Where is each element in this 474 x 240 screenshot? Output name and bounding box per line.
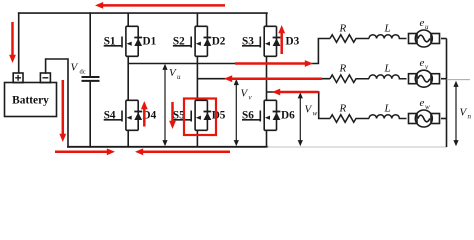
voltage arrow Vv xyxy=(234,79,253,146)
diode D5 with label xyxy=(204,110,226,122)
svg-text:Battery: Battery xyxy=(12,95,49,107)
wire phase c output xyxy=(267,92,331,119)
leg B vertical segments (x=197.4) xyxy=(196,13,198,147)
wire bottom rail xyxy=(68,146,267,148)
switch S6 with label xyxy=(242,100,277,130)
svg-text:n: n xyxy=(468,113,472,121)
diode D6 with label xyxy=(273,110,295,122)
resistor R phase c xyxy=(330,103,369,123)
leg A vertical segments (x=128.2) xyxy=(127,13,129,147)
red current arrow: up through D3 xyxy=(278,25,285,54)
svg-text:D5: D5 xyxy=(212,110,226,122)
svg-text:u: u xyxy=(425,23,429,31)
svg-text:R: R xyxy=(339,63,347,75)
source e_u xyxy=(409,17,447,47)
wire phase a output xyxy=(128,39,330,64)
svg-text:S6: S6 xyxy=(242,110,254,122)
red current arrow: top rail toward battery xyxy=(95,2,225,9)
red highlight box around S5/D5 xyxy=(184,99,216,136)
svg-text:w: w xyxy=(313,110,318,118)
svg-text:S1: S1 xyxy=(104,36,116,48)
battery B1 xyxy=(5,73,57,117)
wire top rail xyxy=(19,12,267,14)
red current arrow: phase c leftward xyxy=(272,89,319,96)
svg-text:L: L xyxy=(384,103,391,115)
red current arrow: phase b leftward xyxy=(224,75,322,82)
wire dc-link capacitor line top xyxy=(89,13,91,77)
wire left vertical from top rail to battery + xyxy=(18,13,20,73)
switch S3 with label xyxy=(242,26,277,56)
diode D1 with label xyxy=(134,36,156,48)
red current arrow: bottom rail rightward xyxy=(55,148,115,155)
voltage arrow Vu xyxy=(162,64,181,147)
capacitor C (dc link) xyxy=(82,77,100,81)
red current arrow: phase a rightward xyxy=(235,60,313,67)
red current arrow: down through S5 xyxy=(169,102,176,129)
resistor R phase a xyxy=(330,23,369,43)
node n tick xyxy=(447,79,471,81)
switch S1 with label xyxy=(104,26,139,56)
svg-text:R: R xyxy=(339,23,347,35)
svg-text:S2: S2 xyxy=(173,36,185,48)
diode D2 with label xyxy=(204,36,226,48)
svg-text:D6: D6 xyxy=(281,110,295,122)
wire phase b output xyxy=(197,78,330,80)
red current arrow: bottom rail leftward xyxy=(135,148,230,155)
voltage arrow Vn xyxy=(453,81,471,147)
red current arrow: into battery + (left) xyxy=(9,22,16,63)
voltage arrow Vw xyxy=(298,92,318,146)
svg-text:L: L xyxy=(384,23,391,35)
red current arrow: up through D4 xyxy=(141,101,148,127)
red current arrow: battery minus down xyxy=(59,80,66,142)
svg-text:S4: S4 xyxy=(104,110,116,122)
switch S4 with label xyxy=(104,100,139,130)
wire battery minus riser xyxy=(46,59,68,147)
svg-text:S3: S3 xyxy=(242,36,254,48)
switch S2 with label xyxy=(173,26,208,56)
svg-text:w: w xyxy=(425,103,430,111)
svg-text:e: e xyxy=(420,17,425,29)
svg-text:dc: dc xyxy=(80,69,86,76)
diode D3 with label xyxy=(273,36,300,48)
svg-text:e: e xyxy=(420,97,425,109)
svg-text:D3: D3 xyxy=(286,36,300,48)
resistor R phase b xyxy=(330,63,369,83)
svg-text:L: L xyxy=(384,63,391,75)
switch S5 with label xyxy=(173,100,208,130)
source e_w xyxy=(409,97,447,127)
svg-text:e: e xyxy=(420,57,425,69)
svg-text:D2: D2 xyxy=(212,36,226,48)
svg-text:D1: D1 xyxy=(143,36,157,48)
inductor L phase a xyxy=(369,23,407,39)
leg C vertical segments (x=266.5) xyxy=(266,13,268,147)
svg-text:R: R xyxy=(339,103,347,115)
wire right rail (neutral) xyxy=(446,39,448,148)
wire dc-link capacitor line bottom xyxy=(89,81,91,147)
svg-text:u: u xyxy=(177,73,181,81)
source e_v xyxy=(409,57,447,87)
wire bottom rail thin right segment xyxy=(267,146,446,148)
diode D4 with label xyxy=(134,110,156,122)
inductor L phase c xyxy=(369,103,407,119)
inductor L phase b xyxy=(369,63,407,79)
